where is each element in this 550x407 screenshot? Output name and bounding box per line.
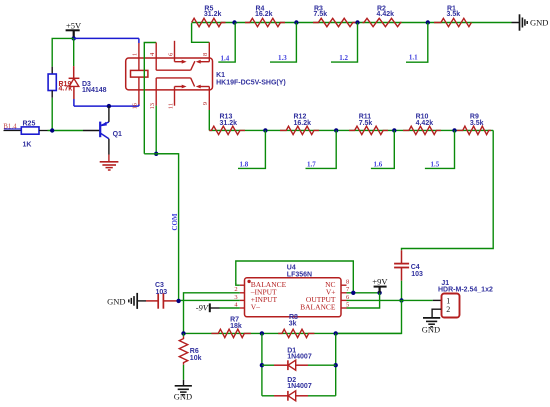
wire pin9 to R13	[208, 110, 210, 130]
node +9V dot	[377, 291, 381, 295]
svg-text:3.5k: 3.5k	[470, 120, 484, 127]
resistor R3	[313, 18, 357, 26]
svg-text:1N4007: 1N4007	[287, 383, 312, 390]
svg-text:16.2k: 16.2k	[294, 120, 312, 127]
node Q1 collector dot	[107, 104, 111, 108]
U4 pin 5 stub	[341, 307, 347, 309]
svg-text:1.4: 1.4	[221, 54, 230, 62]
node dot R13-R12	[263, 128, 267, 132]
net 1.4 wire	[218, 23, 235, 63]
svg-text:1.1: 1.1	[409, 54, 418, 62]
svg-text:BALANCE: BALANCE	[300, 303, 336, 312]
relay pin 6	[174, 41, 176, 62]
svg-text:4.42k: 4.42k	[416, 120, 434, 127]
U4 pin 2 stub	[240, 292, 245, 294]
node dot R12-R11	[334, 128, 338, 132]
wire C4 to output row	[401, 281, 403, 301]
svg-text:13: 13	[149, 103, 156, 110]
svg-text:R6: R6	[190, 348, 199, 355]
wire R25 to Q1 base	[48, 130, 84, 132]
node pin4-13 junction	[154, 152, 158, 156]
wire pin13 down	[155, 106, 157, 154]
svg-text:R25: R25	[23, 120, 36, 127]
wire D3 to collector (blue)	[73, 99, 75, 106]
resistor R11	[349, 126, 388, 134]
svg-text:103: 103	[411, 271, 423, 278]
wire -9V to pin4	[220, 307, 240, 309]
svg-text:1.7: 1.7	[307, 161, 316, 169]
svg-text:GND: GND	[174, 392, 192, 402]
wire +5V to relay pin1 (blue)	[74, 37, 139, 39]
node D1 left dot	[260, 363, 264, 367]
relay lower pole	[156, 77, 191, 79]
resistor R4	[245, 18, 285, 26]
resistor R13	[209, 126, 245, 134]
svg-text:1K: 1K	[23, 142, 32, 149]
wire pin2 left-down	[184, 293, 240, 334]
relay pin 9	[208, 87, 210, 111]
relay pin 8 wire from R5	[192, 23, 210, 42]
svg-text:HDR-M-2.54_1x2: HDR-M-2.54_1x2	[438, 286, 493, 293]
wire pin7 to +9V	[347, 292, 380, 294]
relay pin 16	[138, 105, 140, 107]
wire relay pin4 top	[144, 43, 156, 154]
svg-text:16: 16	[132, 102, 139, 109]
net 1.6 wire	[371, 130, 394, 168]
svg-text:8: 8	[202, 53, 209, 56]
diode D1	[262, 364, 274, 366]
svg-text:1.2: 1.2	[339, 54, 348, 62]
resistor R5	[192, 18, 226, 26]
wire Q1 emitter down	[108, 139, 110, 155]
relay pin 4	[155, 43, 157, 71]
ground GND top-right	[512, 22, 520, 24]
node R6 top junction	[181, 331, 185, 335]
node R7-R8 left dot	[260, 331, 264, 335]
wire +5V to R19	[52, 38, 73, 66]
svg-text:3.5k: 3.5k	[447, 11, 461, 18]
svg-text:COM: COM	[171, 213, 179, 231]
U4 pin 6 stub	[341, 299, 347, 301]
svg-text:K1: K1	[216, 72, 225, 79]
svg-text:1: 1	[132, 53, 139, 56]
wire output down to R8 row	[336, 300, 402, 333]
wire J1 pin2 to gnd	[432, 309, 441, 318]
relay pin 13	[155, 78, 157, 106]
resistor R12	[280, 126, 319, 134]
svg-text:GND: GND	[107, 296, 125, 306]
wire R6 to gnd	[183, 365, 185, 380]
svg-text:GND: GND	[422, 324, 440, 334]
net 1.1 wire	[406, 23, 428, 63]
wire pin6 output	[347, 299, 402, 301]
ground under R6	[175, 385, 192, 387]
svg-text:+9V: +9V	[372, 277, 388, 287]
node pin7 dot	[351, 291, 355, 295]
node C3 junction	[176, 299, 180, 303]
wire bottom row	[184, 332, 402, 334]
relay pin 8	[208, 42, 210, 61]
node D1 right dot	[334, 363, 338, 367]
diode D3	[73, 38, 75, 66]
svg-text:8: 8	[346, 279, 349, 286]
svg-text:31.2k: 31.2k	[204, 11, 222, 18]
resistor R19	[51, 67, 53, 74]
connector J1	[433, 299, 441, 301]
capacitor C4	[401, 250, 403, 263]
relay pin 1	[138, 43, 140, 105]
svg-text:10k: 10k	[190, 355, 202, 362]
wire R19 to base node	[51, 98, 53, 131]
svg-text:LF356N: LF356N	[287, 271, 312, 278]
resistor R9	[457, 126, 491, 134]
svg-text:+5V: +5V	[66, 20, 82, 30]
resistor R6	[183, 333, 185, 336]
wire COM	[144, 153, 178, 155]
svg-text:1N4148: 1N4148	[82, 87, 107, 94]
svg-text:4: 4	[149, 52, 156, 56]
svg-text:1.8: 1.8	[240, 161, 249, 169]
wire D1 branch left	[261, 333, 263, 395]
svg-text:9: 9	[202, 102, 209, 105]
svg-text:V–: V–	[251, 303, 260, 312]
wire top row	[192, 22, 512, 24]
node dot R3-R2	[355, 20, 359, 24]
svg-text:6: 6	[167, 52, 174, 56]
node dot R10-R9	[452, 128, 456, 132]
relay pin 11	[174, 87, 176, 106]
net 1.2 wire	[331, 23, 358, 63]
wire pin3 from C3	[179, 299, 240, 301]
net 1.8 wire	[238, 130, 265, 168]
relay upper pole	[156, 69, 191, 71]
resistor R10	[403, 126, 441, 134]
wire pin5 to +9V	[347, 293, 380, 308]
U4 pin 8 stub	[341, 284, 347, 286]
U4 pin 7 stub	[341, 292, 347, 294]
svg-text:C4: C4	[411, 264, 420, 271]
net 1.3 wire	[270, 23, 296, 63]
relay K1 outline	[126, 58, 213, 90]
U4 pin 3 stub	[240, 299, 245, 301]
svg-text:18k: 18k	[230, 323, 242, 330]
U4 pin 1 stub	[240, 284, 245, 286]
svg-text:GND: GND	[530, 17, 548, 27]
svg-text:7.5k: 7.5k	[359, 120, 373, 127]
svg-text:2: 2	[446, 305, 450, 314]
op-amp U4 box	[245, 278, 342, 317]
resistor R2	[363, 18, 402, 26]
node dot R5-R4	[232, 20, 236, 24]
wire balance loop	[236, 261, 353, 293]
ground under Q1 (red)	[100, 161, 119, 163]
node dot R4-R3	[294, 20, 298, 24]
net 1.5 wire	[425, 130, 455, 168]
svg-text:3k: 3k	[289, 321, 297, 328]
node base junction	[50, 128, 54, 132]
svg-text:Q1: Q1	[113, 131, 122, 138]
wire middle row	[209, 129, 493, 131]
relay K1 coil	[131, 70, 148, 77]
svg-text:1.5: 1.5	[431, 161, 440, 169]
svg-text:-9V: -9V	[196, 303, 210, 313]
svg-text:4.42k: 4.42k	[377, 11, 395, 18]
svg-text:16.2k: 16.2k	[255, 11, 273, 18]
net 1.7 wire	[306, 130, 337, 168]
resistor R1	[434, 18, 471, 26]
node dot R2-R1	[426, 20, 430, 24]
svg-text:7.5k: 7.5k	[314, 11, 328, 18]
node dot R11-R10	[392, 128, 396, 132]
svg-text:1.3: 1.3	[278, 54, 287, 62]
svg-text:11: 11	[167, 103, 174, 109]
node R8 right dot	[334, 331, 338, 335]
node +5V junction	[72, 36, 76, 40]
node output junction	[399, 298, 403, 302]
svg-text:31.2k: 31.2k	[220, 120, 238, 127]
resistor R7	[211, 329, 250, 337]
svg-text:103: 103	[156, 289, 168, 296]
ground under J1	[423, 317, 440, 319]
wire D1 branch right	[335, 333, 337, 395]
svg-text:1N4007: 1N4007	[287, 353, 312, 360]
capacitor C3	[146, 300, 158, 302]
resistor R25	[21, 127, 39, 134]
transistor Q1	[83, 130, 100, 132]
U4 pin 4 stub	[240, 307, 245, 309]
wire R9 right down	[402, 130, 494, 250]
wire output to J1	[402, 299, 433, 301]
svg-text:HK19F-DC5V-SHG(Y): HK19F-DC5V-SHG(Y)	[216, 79, 286, 86]
resistor R8	[278, 329, 314, 337]
diode D2	[262, 395, 274, 397]
svg-text:1.6: 1.6	[374, 161, 383, 169]
